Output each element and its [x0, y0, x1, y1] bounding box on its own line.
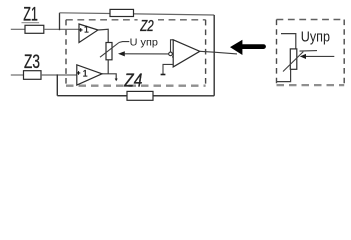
svg-text:1: 1: [84, 25, 89, 35]
dashed box amplifier block: bottom edge: [66, 85, 206, 87]
wire bottom feedback run: [57, 95, 214, 97]
wire U3 output: [200, 51, 237, 54]
resistor Z4: [127, 91, 153, 100]
wire RP1 bottom to U2 output: [107, 60, 109, 74]
resistor Z2: [110, 9, 134, 16]
svg-text:Z3: Z3: [24, 52, 40, 73]
op-amp U2 (buffer +1): [77, 65, 102, 85]
wire input 1: [11, 28, 25, 30]
svg-text:1: 1: [83, 69, 88, 79]
wire wiper to op-amp U3: [125, 53, 169, 55]
resistor Z3: [24, 71, 42, 80]
op-amp U3 (output amplifier): [173, 40, 200, 67]
op-amp U1 (buffer +1): [79, 24, 98, 43]
wire Z3 to op-amp U2: [41, 74, 77, 76]
input bubble of U3: [169, 52, 173, 56]
leader to label U upr: [119, 41, 129, 44]
node A (junction, branch up to feedback Z2): [59, 13, 61, 30]
dashed box amplifier block: right edge: [205, 20, 207, 86]
potentiometer RP1 (controlled resistor): [106, 43, 112, 60]
wiper arrow of RP2: [300, 54, 306, 59]
variability diagonal of RP1: [100, 43, 119, 58]
svg-text:Z4: Z4: [123, 69, 142, 90]
wire U1 output to potentiometer top: [98, 29, 108, 42]
resistor Z1: [25, 25, 44, 33]
wire Z1 to op-amp U1: [44, 28, 79, 30]
junction dot on U3 edge: [172, 56, 174, 58]
underline under Z1: [22, 22, 40, 24]
dashed box control source: right edge: [343, 20, 345, 86]
dashed box amplifier block: top edge: [66, 19, 206, 21]
leader from diagonal: [300, 50, 318, 53]
dashed box control source: left edge: [276, 20, 278, 86]
white gap for label Z2: [138, 17, 158, 32]
wiper arrow of RP1: [118, 51, 125, 56]
variability diagonal of RP2: [283, 52, 303, 72]
wire control bottom terminal: [277, 69, 291, 81]
wire wiper RP2: [306, 55, 335, 57]
bold arrow (signal direction): [230, 40, 242, 55]
wire feedback vertical right: [213, 15, 215, 96]
svg-text:Uупр: Uупр: [301, 29, 330, 45]
wire input 2: [11, 74, 24, 76]
small down arrowhead end: [115, 79, 118, 82]
wire control top terminal: [281, 34, 296, 49]
ground bar: [161, 74, 166, 76]
wire U2 output run: [102, 74, 116, 79]
dashed box control source: top edge: [277, 19, 345, 21]
potentiometer RP2 (control element): [290, 49, 297, 69]
dashed box amplifier block: left edge: [65, 20, 67, 86]
svg-text:U упр: U упр: [130, 37, 158, 48]
dashed box control source: bottom edge: [277, 84, 345, 86]
second input wire of U3: [163, 64, 173, 74]
wire into U3 bubble from top: [171, 40, 174, 52]
node B (junction, branch down to feedback Z4): [56, 74, 58, 95]
wire top feedback run: [60, 13, 215, 15]
svg-text:Z2: Z2: [139, 18, 153, 35]
